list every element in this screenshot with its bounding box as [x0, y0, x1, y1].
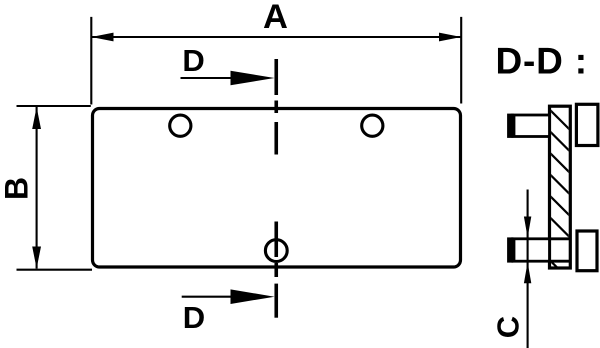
- section arrow D bottom (line): [182, 296, 232, 298]
- dimension A line: [91, 36, 461, 38]
- hole top-right: [362, 115, 383, 136]
- screw top: head: [576, 104, 598, 145]
- dimension A arrowhead left: [91, 33, 113, 42]
- dimension B line: [36, 107, 38, 269]
- section plate bar (hatched cross-section): [550, 106, 571, 268]
- screw bottom: shank end cap: [509, 237, 515, 262]
- dimension A extension line left: [90, 17, 92, 105]
- hole top-left: [170, 115, 191, 136]
- section line D-D (dash-dot, lower group): [274, 222, 278, 318]
- dimension B arrowhead bottom: [32, 247, 41, 269]
- svg-text:D-D :: D-D :: [496, 41, 588, 82]
- screw bottom: shank: [509, 239, 550, 261]
- hatching of section bar: [548, 108, 572, 283]
- screw bottom: shank lines through bar: [550, 239, 570, 261]
- svg-text:D: D: [183, 300, 205, 335]
- screw top: shank end cap: [509, 114, 515, 138]
- section arrow D top (head): [231, 71, 275, 86]
- svg-text:A: A: [263, 0, 288, 36]
- screw top: shank: [509, 115, 550, 137]
- dimension B extension line top: [17, 105, 91, 107]
- section arrow D top (line): [181, 77, 233, 79]
- svg-text:D: D: [182, 43, 204, 78]
- hole bottom-center: [265, 240, 287, 262]
- svg-text:C: C: [490, 316, 525, 338]
- svg-text:B: B: [0, 177, 34, 200]
- dimension A arrowhead right: [439, 33, 461, 42]
- dimension C upper arrowhead: [524, 217, 531, 238]
- screw bottom: head: [577, 231, 597, 271]
- dimension B arrowhead top: [32, 107, 41, 129]
- section arrow D bottom (head): [231, 289, 275, 304]
- dimension A extension line right: [460, 17, 462, 104]
- dimension C upper line: [527, 190, 529, 348]
- section line D-D (dash-dot, upper group): [274, 59, 278, 155]
- plate outline (front view): [93, 109, 461, 268]
- dimension C lower arrowhead: [524, 262, 531, 283]
- dimension B extension line bottom: [17, 269, 93, 271]
